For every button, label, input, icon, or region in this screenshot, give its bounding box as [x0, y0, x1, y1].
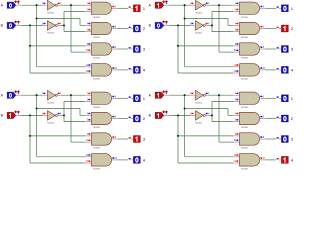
wire B from switch to inverter (Q2)	[169, 24, 190, 26]
wire B trunk down (Q3)	[29, 114, 85, 163]
wire B from switch to inverter (Q1)	[21, 24, 42, 26]
AND gate 74LS08 #2 (Q2)	[233, 22, 266, 39]
wire NOT-A trunk to AND gate 3 (Q1)	[70, 4, 85, 52]
inverter 74LS04 #1 (Q2)	[190, 0, 210, 14]
wire NOT-B trunk to AND gates 1 and 2 (Q4)	[211, 101, 233, 121]
logic probe output 1 (Q3) state=0	[129, 95, 145, 102]
wire B branch to AND gate 3 (Q1)	[29, 45, 85, 47]
svg-text:4: 4	[143, 159, 145, 163]
logic probe output 1 (Q4) state=0	[277, 95, 293, 102]
AND gate 74LS08 #1 (Q4)	[233, 92, 266, 109]
svg-text:74LS08: 74LS08	[93, 148, 101, 150]
wire A branch to AND gate 2 (Q1)	[36, 17, 85, 25]
svg-text:74LS08: 74LS08	[241, 58, 249, 60]
svg-text:74LS04: 74LS04	[195, 102, 203, 104]
wire B from switch to inverter (Q3)	[21, 114, 42, 116]
svg-text:74LS04: 74LS04	[47, 12, 55, 14]
wire NOT-B trunk to AND gates 1 and 2 (Q1)	[63, 11, 85, 31]
wire A trunk down (Q1)	[36, 4, 85, 67]
wire A branch to AND gate 2 (Q3)	[36, 107, 85, 115]
AND gate 74LS08 #3 (Q2)	[233, 43, 266, 60]
logic probe output 1 (Q2) state=0	[277, 5, 293, 12]
AND gate 74LS08 #1 (Q1)	[85, 2, 118, 19]
wire NOT-A trunk to AND gate 3 (Q4)	[218, 94, 233, 142]
wire AND gate 2 output to probe (Q4)	[266, 118, 277, 120]
svg-text:74LS08: 74LS08	[93, 17, 101, 19]
wire B trunk down (Q2)	[177, 24, 233, 73]
svg-text:74LS08: 74LS08	[241, 37, 249, 39]
wire A from switch to inverter (Q2)	[169, 4, 190, 6]
wire NOT-B from inverter to node (Q3)	[60, 114, 64, 116]
logic input switch A (Q3) state=0	[1, 91, 22, 99]
svg-text:74LS04: 74LS04	[47, 102, 55, 104]
svg-text:3: 3	[291, 48, 293, 52]
svg-text:74LS04: 74LS04	[47, 33, 55, 35]
wire B branch to AND gate 3 (Q3)	[29, 135, 85, 137]
logic probe output 4 (Q4) state=1	[277, 156, 293, 163]
svg-text:74LS08: 74LS08	[93, 107, 101, 109]
wire A branch to AND gate 2 (Q2)	[184, 17, 233, 25]
inverter 74LS04 #1 (Q3)	[42, 90, 62, 104]
svg-text:74LS08: 74LS08	[93, 58, 101, 60]
logic input switch B (Q4) state=1	[149, 111, 170, 119]
wire B from switch to inverter (Q4)	[169, 114, 190, 116]
wire NOT-A from inverter to AND gate 1 (Q2)	[208, 4, 233, 6]
AND gate 74LS08 #3 (Q3)	[85, 133, 118, 150]
wire B trunk down (Q1)	[29, 24, 85, 73]
svg-text:4: 4	[291, 69, 293, 73]
AND gate 74LS08 #4 (Q2)	[233, 64, 266, 81]
logic probe output 1 (Q1) state=1	[129, 5, 145, 12]
svg-text:74LS08: 74LS08	[241, 107, 249, 109]
svg-text:1: 1	[143, 7, 145, 11]
svg-text:1: 1	[291, 7, 293, 11]
logic probe output 2 (Q3) state=0	[129, 115, 145, 122]
wire B trunk down (Q4)	[177, 114, 233, 163]
wire NOT-B from inverter to node (Q4)	[208, 114, 212, 116]
wire AND gate 2 output to probe (Q2)	[266, 28, 277, 30]
AND gate 74LS08 #2 (Q4)	[233, 112, 266, 129]
logic probe output 2 (Q1) state=0	[129, 25, 145, 32]
logic input switch A (Q2) state=1	[149, 1, 170, 9]
wire NOT-B trunk to AND gates 1 and 2 (Q2)	[211, 11, 233, 31]
svg-text:3: 3	[143, 138, 145, 142]
svg-text:74LS08: 74LS08	[241, 148, 249, 150]
svg-text:2: 2	[291, 27, 293, 31]
wire AND gate 2 output to probe (Q3)	[118, 118, 129, 120]
wire A branch to AND gate 2 (Q4)	[184, 107, 233, 115]
wire AND gate 4 output to probe (Q1)	[118, 69, 129, 71]
svg-text:74LS04: 74LS04	[195, 123, 203, 125]
wire AND gate 3 output to probe (Q3)	[118, 138, 129, 140]
svg-text:4: 4	[291, 159, 293, 163]
svg-text:74LS08: 74LS08	[93, 37, 101, 39]
wire AND gate 4 output to probe (Q4)	[266, 159, 277, 161]
wire A from switch to inverter (Q1)	[21, 4, 42, 6]
inverter 74LS04 #2 (Q2)	[190, 21, 210, 35]
logic input switch B (Q1) state=0	[1, 21, 22, 29]
wire A from switch to inverter (Q3)	[21, 94, 42, 96]
logic probe output 4 (Q1) state=0	[129, 66, 145, 73]
wire AND gate 4 output to probe (Q3)	[118, 159, 129, 161]
inverter 74LS04 #2 (Q4)	[190, 111, 210, 125]
inverter 74LS04 #2 (Q1)	[42, 21, 62, 35]
wire AND gate 3 output to probe (Q1)	[118, 48, 129, 50]
logic probe output 4 (Q3) state=0	[129, 156, 145, 163]
svg-text:74LS08: 74LS08	[241, 79, 249, 81]
wire AND gate 2 output to probe (Q1)	[118, 28, 129, 30]
AND gate 74LS08 #4 (Q4)	[233, 154, 266, 171]
svg-text:74LS04: 74LS04	[195, 33, 203, 35]
svg-text:74LS04: 74LS04	[47, 123, 55, 125]
AND gate 74LS08 #3 (Q4)	[233, 133, 266, 150]
AND gate 74LS08 #4 (Q3)	[85, 154, 118, 171]
svg-text:1: 1	[143, 97, 145, 101]
wire NOT-A trunk to AND gate 3 (Q3)	[70, 94, 85, 142]
wire B branch to AND gate 3 (Q2)	[177, 45, 233, 47]
wire AND gate 4 output to probe (Q2)	[266, 69, 277, 71]
logic probe output 2 (Q2) state=1	[277, 25, 293, 32]
svg-text:74LS08: 74LS08	[241, 169, 249, 171]
svg-text:3: 3	[143, 48, 145, 52]
wire NOT-B from inverter to node (Q1)	[60, 24, 64, 26]
logic input switch A (Q1) state=0	[1, 1, 22, 9]
svg-text:74LS08: 74LS08	[241, 127, 249, 129]
inverter 74LS04 #1 (Q4)	[190, 90, 210, 104]
AND gate 74LS08 #1 (Q3)	[85, 92, 118, 109]
svg-text:74LS08: 74LS08	[93, 169, 101, 171]
logic probe output 3 (Q2) state=0	[277, 46, 293, 53]
AND gate 74LS08 #4 (Q1)	[85, 64, 118, 81]
wire AND gate 1 output to probe (Q2)	[266, 7, 277, 9]
wire NOT-B trunk to AND gates 1 and 2 (Q3)	[63, 101, 85, 121]
AND gate 74LS08 #1 (Q2)	[233, 2, 266, 19]
wire AND gate 1 output to probe (Q3)	[118, 97, 129, 99]
logic input switch B (Q3) state=1	[1, 111, 22, 119]
AND gate 74LS08 #3 (Q1)	[85, 43, 118, 60]
AND gate 74LS08 #2 (Q3)	[85, 112, 118, 129]
AND gate 74LS08 #2 (Q1)	[85, 22, 118, 39]
wire NOT-A from inverter to AND gate 1 (Q3)	[60, 94, 85, 96]
svg-text:2: 2	[143, 27, 145, 31]
svg-text:74LS04: 74LS04	[195, 12, 203, 14]
logic probe output 3 (Q3) state=1	[129, 136, 145, 143]
wire A trunk down (Q3)	[36, 94, 85, 157]
wire NOT-A from inverter to AND gate 1 (Q4)	[208, 94, 233, 96]
wire B branch to AND gate 3 (Q4)	[177, 135, 233, 137]
wire AND gate 1 output to probe (Q4)	[266, 97, 277, 99]
logic probe output 4 (Q2) state=0	[277, 66, 293, 73]
logic probe output 3 (Q1) state=0	[129, 46, 145, 53]
svg-text:2: 2	[291, 117, 293, 121]
logic probe output 3 (Q4) state=0	[277, 136, 293, 143]
logic probe output 2 (Q4) state=0	[277, 115, 293, 122]
wire A trunk down (Q2)	[184, 4, 233, 67]
svg-text:74LS08: 74LS08	[241, 17, 249, 19]
svg-text:1: 1	[291, 97, 293, 101]
wire AND gate 1 output to probe (Q1)	[118, 7, 129, 9]
wire NOT-B from inverter to node (Q2)	[208, 24, 212, 26]
wire AND gate 3 output to probe (Q2)	[266, 48, 277, 50]
inverter 74LS04 #1 (Q1)	[42, 0, 62, 14]
wire AND gate 3 output to probe (Q4)	[266, 138, 277, 140]
wire NOT-A from inverter to AND gate 1 (Q1)	[60, 4, 85, 6]
svg-text:2: 2	[143, 117, 145, 121]
wire NOT-A trunk to AND gate 3 (Q2)	[218, 4, 233, 52]
inverter 74LS04 #2 (Q3)	[42, 111, 62, 125]
svg-text:74LS08: 74LS08	[93, 127, 101, 129]
wire A trunk down (Q4)	[184, 94, 233, 157]
svg-text:74LS08: 74LS08	[93, 79, 101, 81]
svg-text:4: 4	[143, 69, 145, 73]
wire A from switch to inverter (Q4)	[169, 94, 190, 96]
logic input switch B (Q2) state=0	[149, 21, 170, 29]
logic input switch A (Q4) state=1	[149, 91, 170, 99]
svg-text:3: 3	[291, 138, 293, 142]
